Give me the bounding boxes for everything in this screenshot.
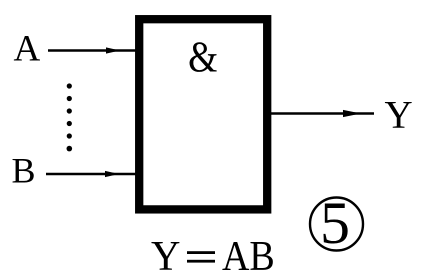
AND gate U1 (IEC rectangular body) (139, 19, 267, 209)
wire output Y (267, 112, 374, 115)
svg-text:Y: Y (385, 93, 413, 136)
arrowhead input B (105, 171, 119, 177)
arrowhead input A (106, 47, 120, 53)
arrowhead output Y (343, 110, 361, 117)
svg-text:B: B (12, 151, 36, 191)
svg-text:Y: Y (151, 232, 180, 279)
svg-text:A: A (14, 29, 41, 70)
figure number circle 5 (310, 198, 363, 251)
svg-text:5: 5 (320, 190, 350, 256)
ellipsis dots (more inputs) (67, 83, 73, 151)
equation equals sign (187, 251, 215, 254)
wire input A (48, 49, 136, 52)
svg-text:AB: AB (222, 232, 275, 279)
wire input B (46, 173, 136, 176)
